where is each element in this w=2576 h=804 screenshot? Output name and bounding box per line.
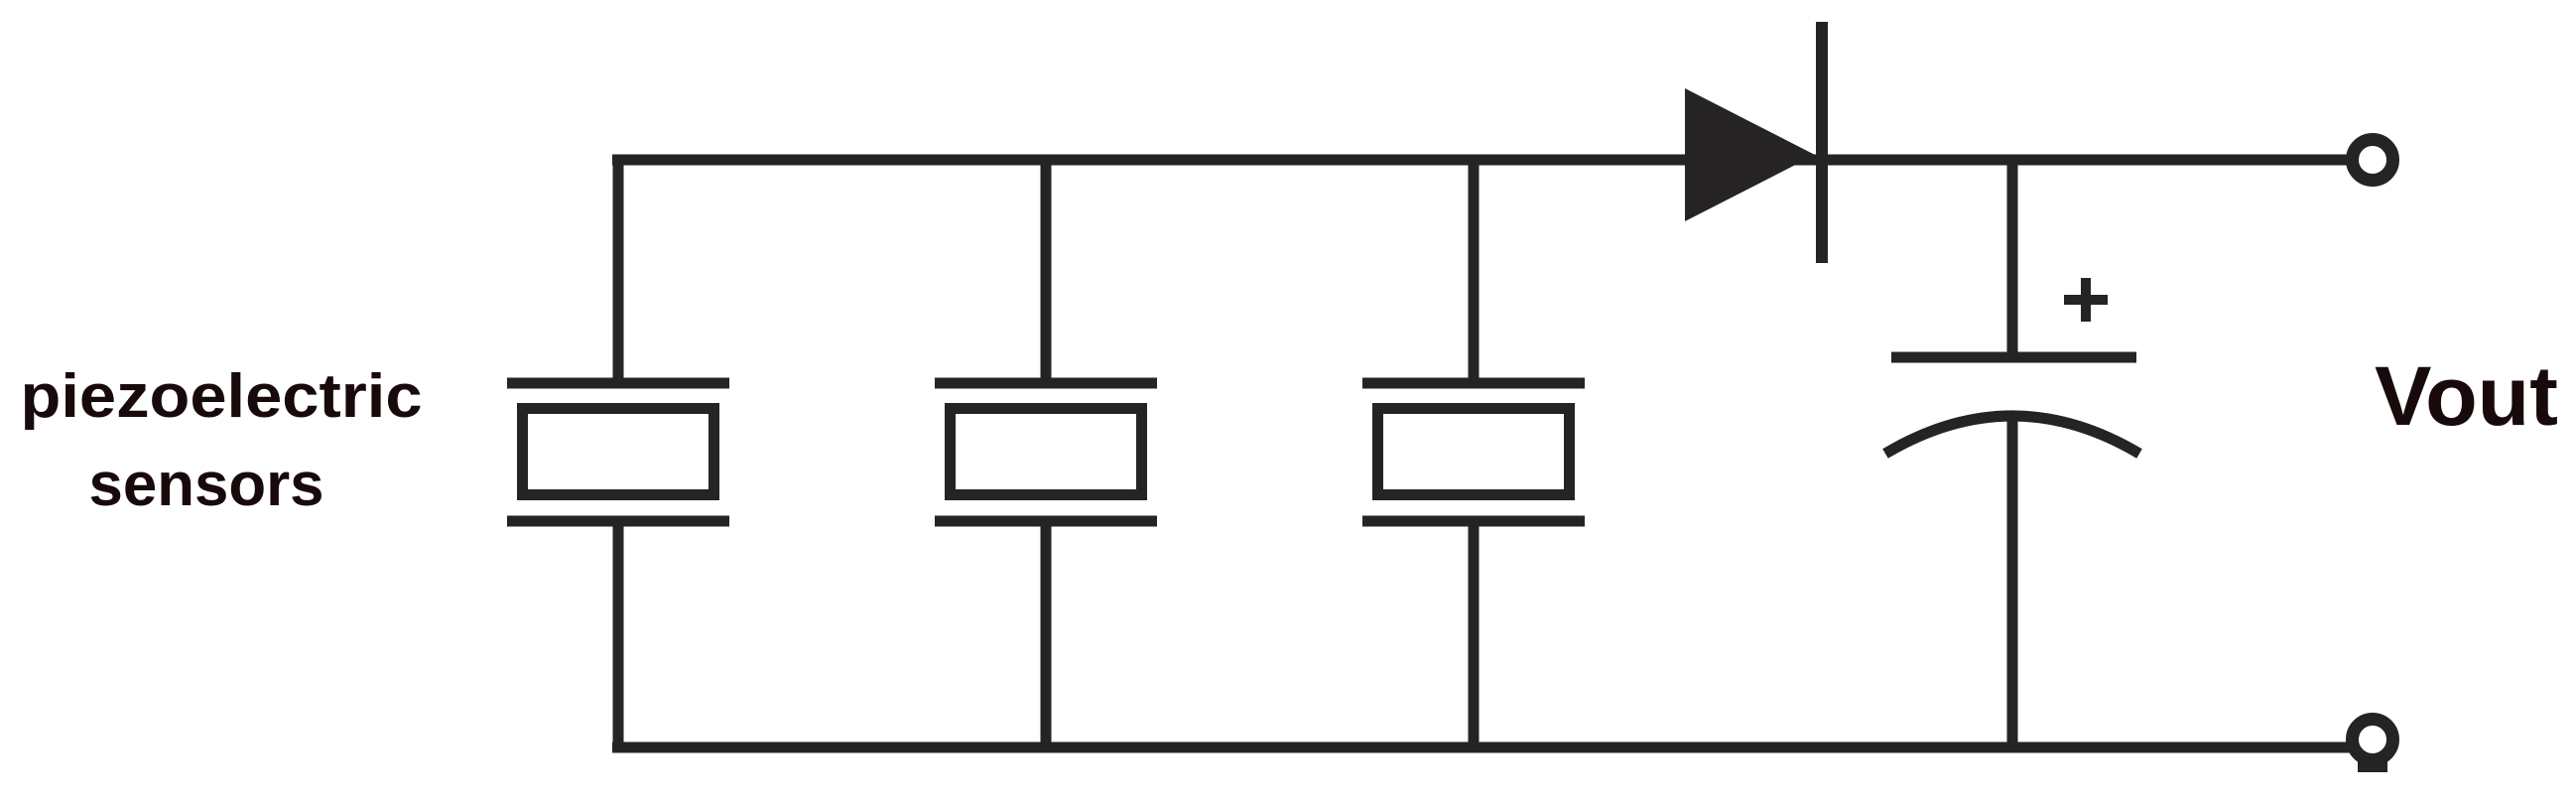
wire bottom rail	[612, 742, 2350, 753]
svg-text:sensors: sensors	[89, 451, 324, 519]
PZ1 bottom plate	[507, 516, 729, 527]
C1 plus sign horizontal stroke	[2064, 295, 2108, 305]
wire PZ1 top lead	[613, 157, 624, 380]
output terminal (positive)	[2353, 140, 2393, 181]
svg-text:Vout: Vout	[2375, 349, 2558, 443]
wire PZ2 top lead	[1041, 157, 1052, 380]
diode D1	[1685, 22, 1822, 263]
wire PZ3 bottom lead	[1469, 524, 1480, 749]
D1 cathode bar	[1816, 22, 1828, 263]
wire PZ2 bottom lead	[1041, 524, 1052, 749]
svg-text:piezoelectric: piezoelectric	[21, 362, 423, 431]
PZ3 crystal body	[1378, 409, 1570, 495]
wire C1 top lead	[2007, 160, 2018, 359]
D1 anode triangle	[1685, 88, 1815, 221]
PZ2 crystal body	[951, 409, 1142, 495]
terminal base fill	[2358, 757, 2387, 772]
C1 positive plate	[1891, 352, 2136, 363]
wire PZ1 bottom lead	[613, 524, 624, 749]
PZ3 bottom plate	[1362, 516, 1585, 527]
piezoelectric sensor PZ2	[935, 157, 1157, 749]
PZ1 top plate	[507, 378, 729, 389]
PZ2 bottom plate	[935, 516, 1157, 527]
wire top rail	[612, 155, 2350, 166]
PZ3 top plate	[1362, 378, 1585, 389]
wire PZ3 top lead	[1469, 157, 1480, 380]
piezoelectric sensor PZ1	[507, 157, 729, 749]
PZ2 top plate	[935, 378, 1157, 389]
wire C1 bottom lead	[2007, 416, 2018, 749]
C1 plus sign vertical stroke	[2081, 278, 2091, 322]
C1 negative curved plate	[1885, 416, 2139, 454]
output terminal (negative)	[2353, 720, 2393, 773]
PZ1 crystal body	[523, 409, 714, 495]
capacitor C1 (polarized)	[1885, 160, 2139, 749]
piezoelectric sensor PZ3	[1362, 157, 1585, 749]
